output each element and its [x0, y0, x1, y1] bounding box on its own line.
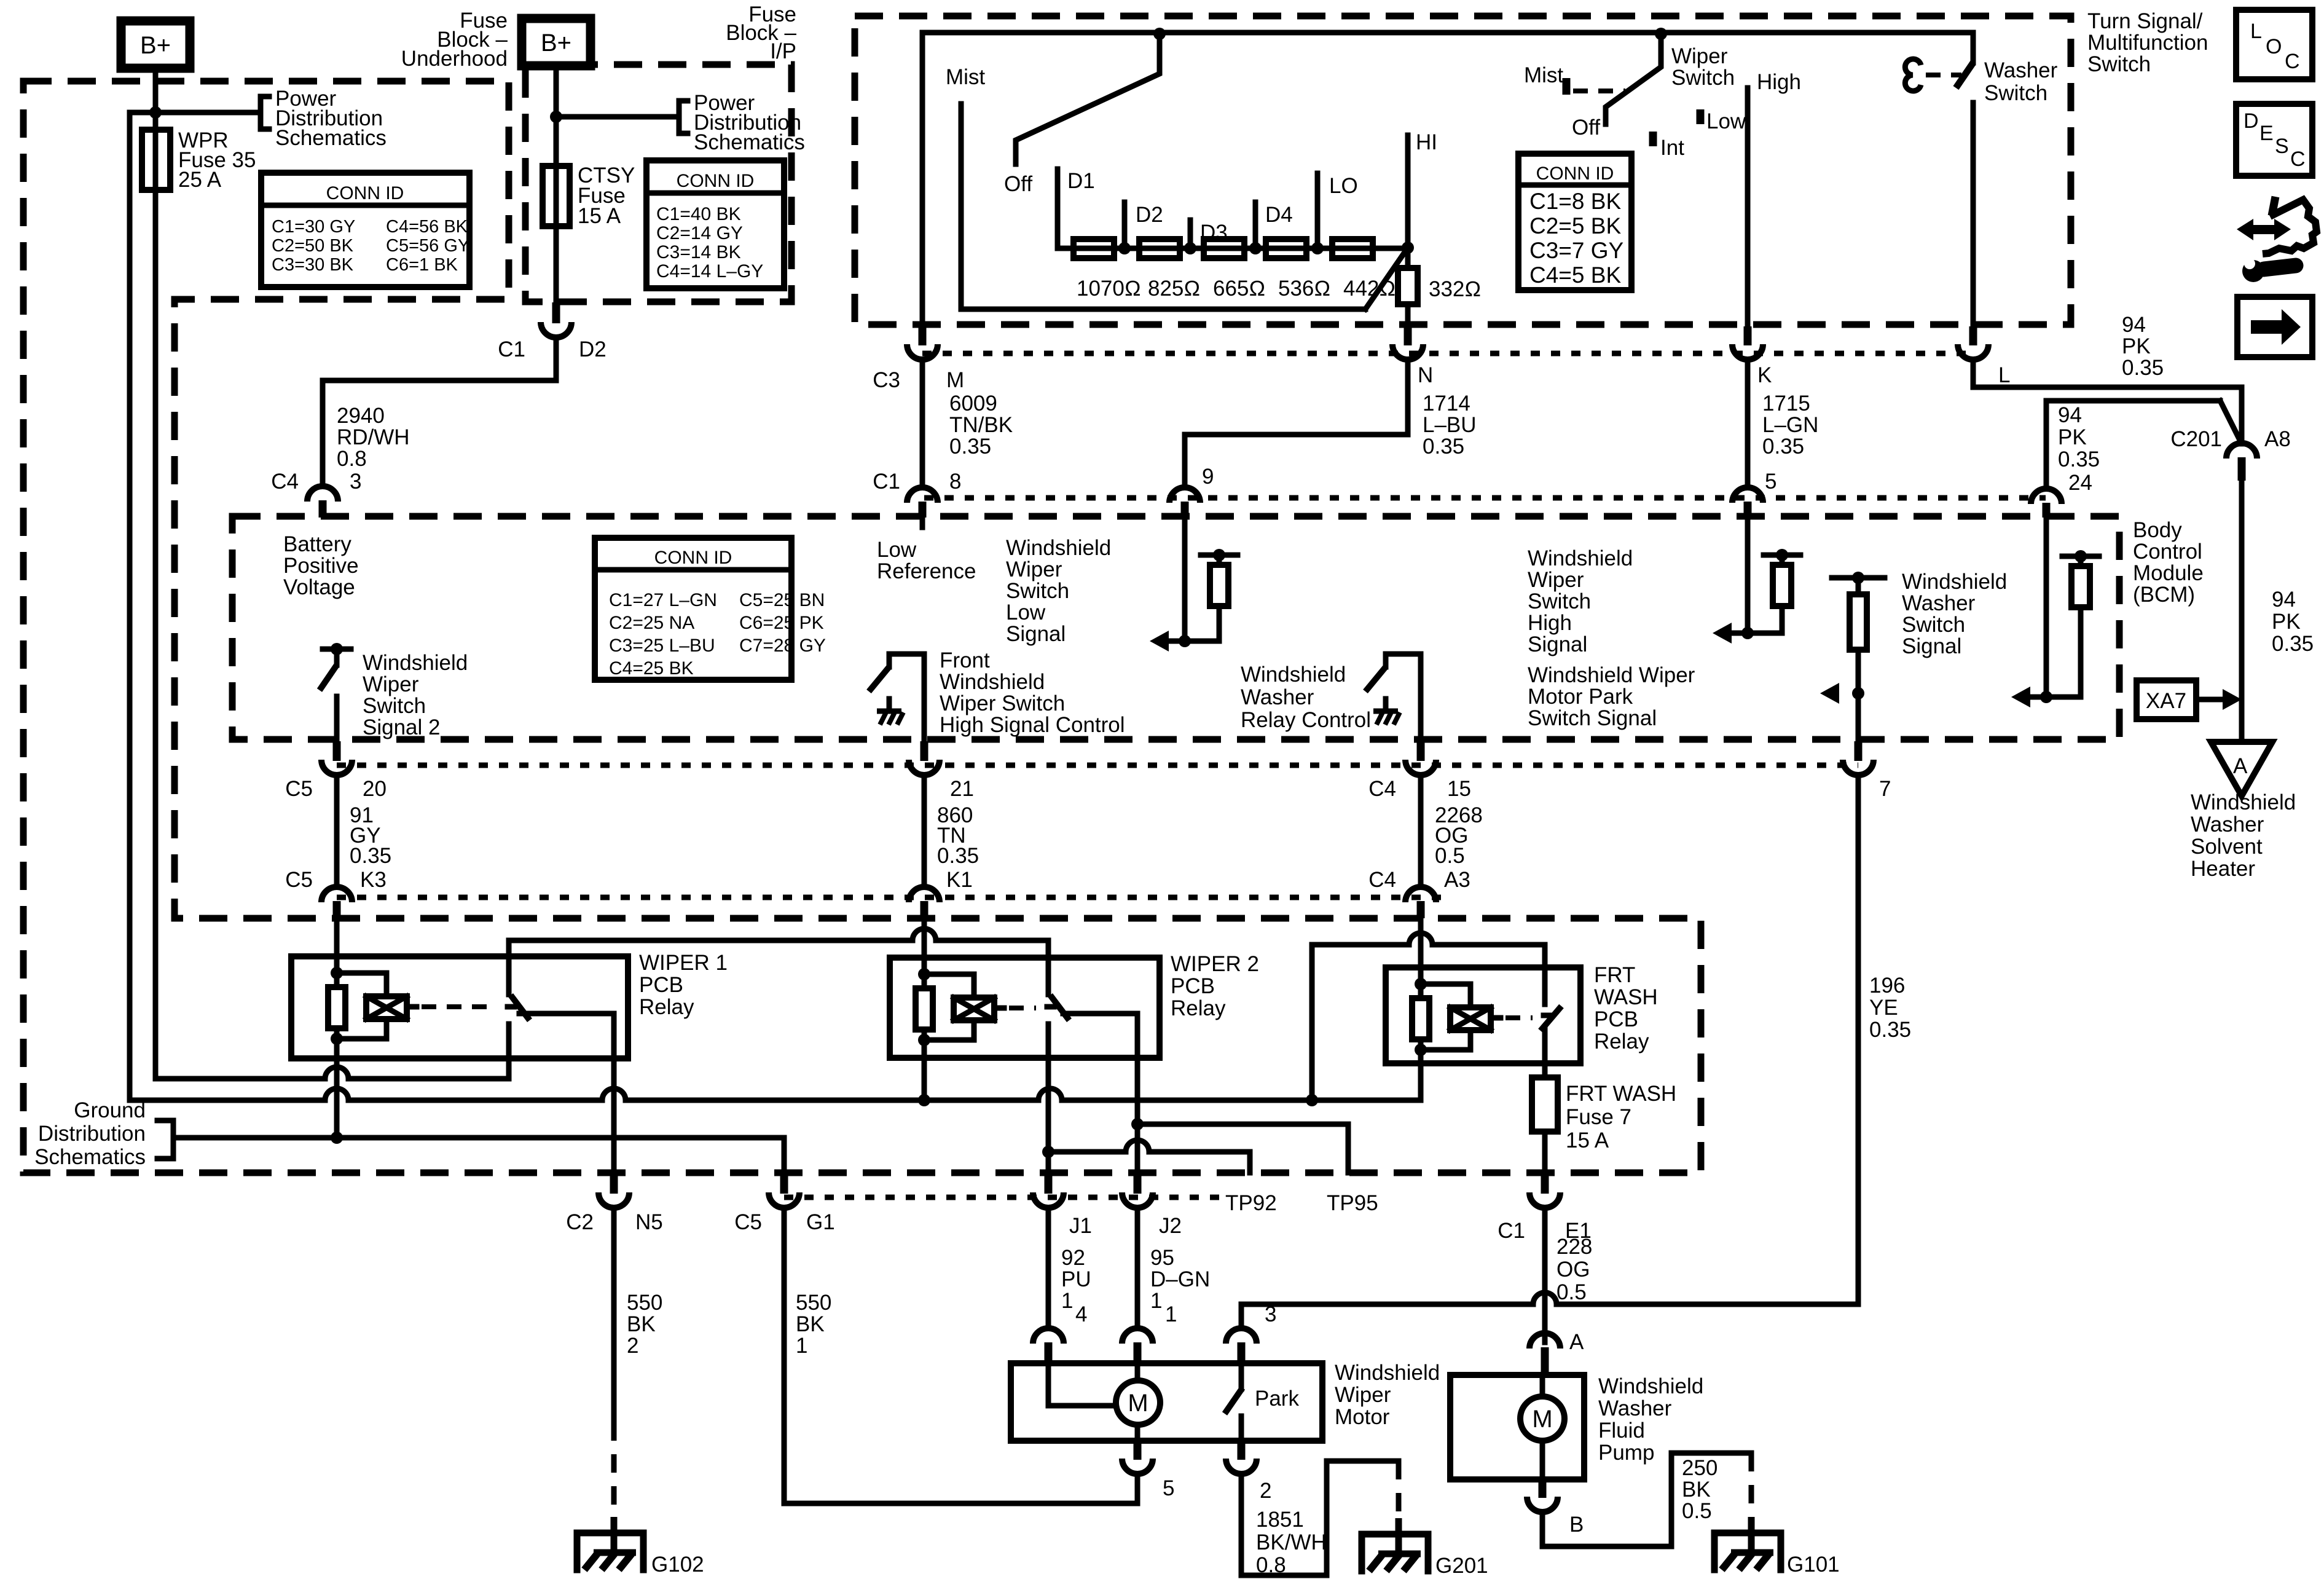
- wire 250 BK: [1542, 1453, 1751, 1546]
- svg-text:15: 15: [1447, 777, 1471, 801]
- svg-text:1: 1: [1061, 1289, 1073, 1313]
- svg-text:Windshield: Windshield: [363, 651, 468, 675]
- svg-text:E: E: [2259, 122, 2274, 145]
- connector pin 5: [1732, 487, 1763, 518]
- label 94 PK 0.35 right: [2272, 588, 2314, 656]
- svg-text:YE: YE: [1869, 996, 1898, 1020]
- connector row C L: [1958, 326, 1988, 360]
- svg-text:G101: G101: [1787, 1553, 1840, 1577]
- svg-text:3: 3: [1265, 1302, 1276, 1326]
- svg-text:0.35: 0.35: [949, 435, 991, 459]
- svg-text:Body: Body: [2133, 518, 2182, 542]
- ground G101: [1714, 1517, 1840, 1577]
- svg-text:WIPER 1: WIPER 1: [639, 951, 728, 975]
- svg-text:536Ω: 536Ω: [1278, 277, 1330, 301]
- label windshield wiper switch signal 2: [363, 651, 468, 739]
- svg-text:Washer: Washer: [1902, 591, 1976, 615]
- label J2: [1159, 1214, 1182, 1238]
- svg-text:196: 196: [1869, 974, 1905, 998]
- bcm output symbol pin 20 (signal 2 switch): [320, 643, 351, 741]
- svg-text:Wiper: Wiper: [1671, 44, 1728, 68]
- svg-text:20: 20: [363, 777, 387, 801]
- svg-text:C4=5 BK: C4=5 BK: [1529, 262, 1621, 288]
- wire relay2 arm output: [1063, 1014, 1137, 1173]
- connector K1: [909, 887, 940, 918]
- label 1851 BK/WH 0.8: [1256, 1508, 1327, 1577]
- svg-text:K1: K1: [946, 868, 973, 892]
- turn signal multifunction switch dashed box: [855, 16, 2071, 325]
- svg-text:PCB: PCB: [1594, 1007, 1638, 1031]
- windshield wiper motor box: [1011, 1363, 1322, 1441]
- wire main bus y53: [922, 30, 1973, 36]
- svg-text:9: 9: [1202, 465, 1214, 489]
- bcm input symbol pin 9 (wiper switch low signal): [1150, 549, 1238, 652]
- tap D3: [1184, 220, 1228, 254]
- relay WIPER 1: [291, 956, 628, 1058]
- svg-text:Relay: Relay: [639, 995, 694, 1019]
- wire 92 PU J1 to motor: [1046, 1212, 1051, 1326]
- bcm input symbol pin 5 (wiper switch high signal): [1713, 549, 1800, 644]
- svg-text:G1: G1: [806, 1210, 835, 1234]
- battery feed B+ 2 symbol: [522, 18, 591, 66]
- wire G101 dashed drop: [1749, 1453, 1754, 1530]
- svg-text:C3: C3: [873, 368, 900, 392]
- svg-text:Battery: Battery: [283, 532, 351, 556]
- svg-text:C1=30 GY: C1=30 GY: [272, 217, 355, 237]
- svg-text:CONN ID: CONN ID: [677, 171, 755, 191]
- wiper switch arm 1: [1016, 34, 1160, 164]
- label 1715 L-GN 0.35: [1762, 392, 1818, 459]
- junction rail relay3 feed: [1306, 1094, 1318, 1106]
- label TP92: [1225, 1191, 1277, 1215]
- wire relay3 coil bottom: [1418, 1063, 1424, 1100]
- wire TP92: [1048, 1140, 1250, 1173]
- svg-text:C201: C201: [2170, 427, 2222, 451]
- svg-text:I/P: I/P: [770, 39, 796, 63]
- resistor 536: [1266, 239, 1306, 258]
- svg-text:High: High: [1757, 70, 1801, 94]
- label windshield washer relay control: [1241, 663, 1371, 732]
- icon DESC box: [2236, 104, 2312, 176]
- label 24: [2068, 471, 2092, 495]
- label fuse block underhood: [401, 9, 508, 71]
- svg-text:D–GN: D–GN: [1150, 1267, 1210, 1291]
- svg-text:Relay: Relay: [1594, 1030, 1649, 1053]
- washer switch spring: [1905, 59, 1921, 91]
- junction bus arm2: [1655, 28, 1667, 40]
- wire motor pin5 internal: [1135, 1425, 1140, 1441]
- svg-text:PCB: PCB: [1171, 974, 1215, 998]
- connector A3: [1405, 887, 1436, 918]
- contact stub Int: [1653, 132, 1684, 160]
- svg-text:Fuse 7: Fuse 7: [1566, 1105, 1631, 1129]
- wire relay3 lower contact to fuse: [1542, 1029, 1548, 1077]
- svg-text:Signal: Signal: [1902, 634, 1961, 658]
- svg-text:CONN ID: CONN ID: [326, 183, 404, 203]
- wire 6009 M to pin8: [920, 364, 925, 484]
- label 2268 OG 0.5: [1435, 803, 1483, 868]
- svg-text:Mist: Mist: [1524, 63, 1563, 87]
- ground distribution bracket: [157, 1120, 784, 1159]
- wire relay1 coil to ground: [334, 1058, 340, 1138]
- label wiper switch: [1671, 44, 1735, 90]
- svg-text:Schematics: Schematics: [275, 126, 387, 150]
- svg-text:K3: K3: [360, 868, 387, 892]
- svg-text:PK: PK: [2058, 425, 2087, 449]
- icon LOC box: [2236, 10, 2312, 79]
- wire B+1 down: [153, 68, 159, 130]
- connector pin 24: [2031, 489, 2062, 518]
- mist 2 contact stub: [1563, 78, 1571, 95]
- svg-text:0.5: 0.5: [1435, 844, 1465, 868]
- svg-text:Wiper: Wiper: [1335, 1383, 1391, 1407]
- tap LO: [1311, 173, 1358, 254]
- wire B+1 branch left: [130, 112, 155, 1100]
- svg-text:N5: N5: [635, 1210, 663, 1234]
- svg-text:Washer: Washer: [1241, 685, 1314, 709]
- svg-text:C2=14 GY: C2=14 GY: [656, 223, 743, 243]
- svg-text:Reference: Reference: [877, 559, 976, 583]
- connector motor pin 2: [1226, 1441, 1271, 1503]
- svg-text:Heater: Heater: [2191, 857, 2255, 881]
- svg-text:C2=50 BK: C2=50 BK: [272, 236, 354, 256]
- relay WIPER 2: [890, 958, 1160, 1058]
- svg-text:K: K: [1757, 363, 1772, 387]
- wire High contact: [1745, 88, 1751, 326]
- connector band dotted row D: [924, 495, 2046, 501]
- wire TP95: [1137, 1124, 1348, 1173]
- tap D4: [1249, 202, 1293, 254]
- svg-text:1070Ω: 1070Ω: [1077, 277, 1141, 301]
- fuse WPR 35 25A: [142, 130, 170, 190]
- contact stub Low: [1700, 109, 1746, 133]
- svg-text:228: 228: [1557, 1235, 1592, 1259]
- wire 94 PK L to C201: [1973, 364, 2242, 444]
- connector row C M: [907, 326, 938, 360]
- svg-text:Multifunction: Multifunction: [2087, 31, 2208, 55]
- wire 550 BK 2: [611, 1212, 617, 1422]
- svg-text:Motor: Motor: [1335, 1405, 1390, 1429]
- resistor 332: [1398, 248, 1481, 326]
- label TP95: [1327, 1191, 1378, 1215]
- wire fuse to E1: [1542, 1132, 1548, 1173]
- washer switch lower contact: [1971, 103, 1976, 326]
- svg-text:21: 21: [950, 777, 974, 801]
- svg-text:Positive: Positive: [283, 554, 359, 578]
- wire B+2 to power distribution bracket: [556, 114, 679, 120]
- svg-text:M: M: [1128, 1390, 1148, 1417]
- label body control module: [2133, 518, 2204, 607]
- svg-text:825Ω: 825Ω: [1148, 277, 1200, 301]
- svg-text:XA7: XA7: [2146, 689, 2186, 713]
- battery feed B+ 1 symbol: [121, 21, 190, 68]
- label Off 1: [1004, 172, 1032, 196]
- svg-text:550: 550: [796, 1291, 831, 1315]
- svg-text:LO: LO: [1329, 174, 1358, 198]
- label C5 G1: [734, 1210, 834, 1234]
- label fuse block I/P: [726, 2, 796, 63]
- svg-text:7: 7: [1879, 777, 1891, 801]
- label C3 M: [873, 368, 964, 392]
- svg-text:94: 94: [2058, 403, 2082, 427]
- wire B+2 down: [554, 66, 559, 166]
- label 228 OG 0.5: [1557, 1235, 1592, 1304]
- label Park: [1255, 1387, 1299, 1411]
- svg-text:Fluid: Fluid: [1598, 1419, 1645, 1443]
- svg-text:Relay Control: Relay Control: [1241, 708, 1371, 732]
- svg-text:Distribution: Distribution: [38, 1122, 146, 1146]
- svg-text:C1=40 BK: C1=40 BK: [656, 204, 741, 224]
- fuse CTSY 15A: [543, 166, 570, 226]
- svg-text:Wiper: Wiper: [1528, 568, 1584, 592]
- label N: [1418, 363, 1433, 387]
- connector band dotted row C: [922, 351, 1973, 356]
- fuse FRT WASH 7 15A: [1532, 1077, 1558, 1132]
- wire WPR fuse down to relay feed: [153, 190, 159, 1079]
- wire B+ rail y1790: [130, 1089, 1420, 1100]
- label Off 2: [1572, 116, 1600, 140]
- svg-text:C1=8 BK: C1=8 BK: [1529, 189, 1621, 214]
- relay WIPER 1 switch: [508, 956, 530, 1020]
- wire 94 PK to pin24 corner: [2046, 401, 2220, 486]
- svg-text:Signal: Signal: [1528, 632, 1587, 656]
- svg-text:0.35: 0.35: [1869, 1018, 1911, 1042]
- connector bottom row E1: [1529, 1173, 1560, 1208]
- label High: [1757, 70, 1801, 94]
- svg-text:Mist: Mist: [946, 65, 985, 89]
- svg-text:Windshield: Windshield: [1598, 1374, 1703, 1398]
- wire 2268 OG: [1418, 778, 1424, 884]
- label turn signal multifunction switch: [2087, 9, 2208, 76]
- wire mist contact 1: [961, 104, 1365, 309]
- svg-text:0.35: 0.35: [2272, 632, 2314, 656]
- label C4 15: [1368, 777, 1471, 801]
- label CTSY fuse: [578, 163, 635, 228]
- svg-text:332Ω: 332Ω: [1429, 277, 1481, 301]
- junction B+2: [550, 111, 562, 123]
- motor M circle: [1116, 1380, 1160, 1425]
- label ground distribution schematics: [34, 1098, 146, 1169]
- svg-text:24: 24: [2068, 471, 2092, 495]
- wire motor pin5 to 550BK1: [1135, 1477, 1140, 1503]
- svg-text:C7=28 GY: C7=28 GY: [739, 636, 826, 656]
- svg-text:Switch Signal: Switch Signal: [1528, 706, 1657, 730]
- svg-text:CONN ID: CONN ID: [654, 548, 732, 568]
- svg-text:PK: PK: [2122, 334, 2151, 358]
- svg-text:Low: Low: [877, 538, 917, 562]
- wire relay2 top contact: [1046, 940, 1051, 994]
- svg-text:Schematics: Schematics: [34, 1145, 146, 1169]
- svg-text:C4=56 BK: C4=56 BK: [386, 217, 468, 237]
- svg-text:C: C: [2290, 148, 2306, 171]
- svg-text:C4: C4: [1368, 868, 1396, 892]
- svg-text:Windshield: Windshield: [1902, 570, 2007, 594]
- label front windshield wiper switch high signal control: [940, 648, 1125, 737]
- label J1: [1069, 1214, 1092, 1238]
- label FRT WASH fuse: [1566, 1082, 1676, 1152]
- connector band dotted row H: [337, 895, 1445, 900]
- wire K1 to relay2 coil: [922, 918, 927, 960]
- connector bottom row N5: [599, 1173, 629, 1208]
- wire 860 TN: [922, 778, 927, 884]
- wire relay1 arm output: [519, 1014, 614, 1173]
- svg-text:0.5: 0.5: [1557, 1280, 1587, 1304]
- connector bottom row J2: [1122, 1173, 1153, 1208]
- label low reference: [877, 538, 976, 583]
- svg-text:Washer: Washer: [1984, 58, 2058, 82]
- wire 196 YE to motor pin3: [1241, 1293, 1858, 1326]
- svg-text:D1: D1: [1067, 169, 1095, 193]
- svg-text:0.35: 0.35: [937, 844, 979, 868]
- label windshield washer fluid pump: [1598, 1374, 1703, 1465]
- label 21: [950, 777, 974, 801]
- connector motor pin 3: [1226, 1302, 1276, 1363]
- svg-text:Switch: Switch: [1671, 66, 1735, 90]
- ground G102: [577, 1517, 704, 1577]
- svg-text:FRT WASH: FRT WASH: [1566, 1082, 1676, 1106]
- svg-text:1: 1: [1165, 1302, 1177, 1326]
- svg-text:250: 250: [1682, 1456, 1717, 1480]
- svg-text:Control: Control: [2133, 540, 2202, 564]
- svg-text:N: N: [1418, 363, 1433, 387]
- label 196 YE 0.35: [1869, 974, 1911, 1042]
- relay FRT WASH switch: [1541, 967, 1561, 1031]
- svg-text:TP92: TP92: [1225, 1191, 1277, 1215]
- wire 1851 BK/WH park to ground: [1241, 1461, 1399, 1575]
- label windshield washer solvent heater: [2191, 790, 2296, 881]
- label 9: [1202, 465, 1214, 489]
- wire relay1 feed from WPR: [155, 1067, 509, 1079]
- svg-text:Windshield: Windshield: [1006, 536, 1111, 560]
- motor park switch: [1225, 1363, 1242, 1441]
- label C2 N5: [566, 1210, 663, 1234]
- svg-text:High: High: [1528, 611, 1572, 635]
- label C5 K3: [285, 868, 387, 892]
- connector pin 8: [907, 487, 938, 518]
- svg-text:D2: D2: [579, 337, 607, 361]
- washer pump M circle: [1520, 1396, 1564, 1441]
- junction HI: [1402, 242, 1414, 254]
- resistor 665: [1204, 239, 1244, 258]
- svg-text:BK/WH: BK/WH: [1256, 1530, 1327, 1554]
- svg-text:L: L: [1998, 363, 2010, 387]
- connector pin 7: [1843, 741, 1874, 775]
- svg-text:C1: C1: [1498, 1219, 1525, 1243]
- label 94 PK 0.35 top: [2122, 313, 2164, 380]
- svg-text:C4: C4: [1368, 777, 1396, 801]
- label K: [1757, 363, 1772, 387]
- svg-text:0.5: 0.5: [1682, 1499, 1712, 1523]
- svg-text:Washer: Washer: [1598, 1396, 1672, 1420]
- wire 1714 N to pin9: [1185, 364, 1408, 484]
- svg-text:94: 94: [2272, 588, 2296, 612]
- svg-text:15 A: 15 A: [578, 204, 621, 228]
- svg-text:1: 1: [796, 1334, 807, 1358]
- svg-text:0.35: 0.35: [2058, 447, 2100, 471]
- connector C4 3: [307, 486, 338, 518]
- svg-text:(BCM): (BCM): [2133, 583, 2195, 607]
- svg-text:HI: HI: [1416, 130, 1437, 154]
- label windshield wiper switch high signal: [1528, 546, 1633, 656]
- label Mist 1: [946, 65, 985, 89]
- svg-text:L–BU: L–BU: [1423, 413, 1477, 437]
- xa7 box: [2137, 680, 2196, 719]
- svg-text:A: A: [2233, 754, 2248, 778]
- svg-text:Module: Module: [2133, 561, 2204, 585]
- wire relay2 coil bottom: [922, 1058, 927, 1100]
- label 5: [1765, 470, 1776, 494]
- wire CTSY fuse down: [554, 226, 559, 302]
- svg-text:O: O: [2266, 35, 2282, 58]
- svg-text:Park: Park: [1255, 1387, 1299, 1411]
- svg-text:Switch: Switch: [1902, 613, 1965, 637]
- wire relay2 lower contact down: [1046, 1024, 1051, 1173]
- svg-text:Front: Front: [940, 648, 990, 672]
- label 1714 L-BU 0.35: [1423, 392, 1477, 459]
- label windshield wiper motor: [1335, 1361, 1440, 1429]
- conn id table BCM: [595, 538, 826, 680]
- svg-text:8: 8: [949, 470, 961, 494]
- svg-text:5: 5: [1765, 470, 1776, 494]
- wire 94 PK to solvent heater: [2239, 481, 2245, 742]
- wire G201 dashed drop: [1396, 1461, 1402, 1532]
- svg-text:6009: 6009: [949, 392, 997, 415]
- svg-text:PCB: PCB: [639, 973, 683, 997]
- label battery positive voltage: [283, 532, 359, 599]
- svg-text:1851: 1851: [1256, 1508, 1304, 1532]
- svg-text:Turn Signal/: Turn Signal/: [2087, 9, 2203, 33]
- svg-text:442Ω: 442Ω: [1343, 277, 1396, 301]
- tap HI: [1408, 130, 1437, 248]
- connector motor pin 5: [1122, 1441, 1174, 1500]
- connector pin 9: [1169, 487, 1200, 518]
- wire 91 GY: [334, 778, 340, 884]
- svg-text:Off: Off: [1572, 116, 1600, 140]
- connector C1 D2: [541, 302, 571, 337]
- label C4 3: [271, 470, 361, 494]
- connector bottom row J1: [1033, 1173, 1064, 1208]
- label C1 D2: [498, 337, 607, 361]
- svg-text:C2=5 BK: C2=5 BK: [1529, 213, 1621, 238]
- label power distribution schematics 1: [275, 87, 387, 150]
- wire 196 YE down: [1856, 778, 1861, 1304]
- svg-text:1: 1: [1150, 1289, 1162, 1313]
- wire M column top: [920, 33, 925, 326]
- conn id table turn signal: [1518, 154, 1631, 290]
- icon wrench and arrow: [2237, 197, 2317, 282]
- wire 2940 RD/WH: [323, 339, 556, 483]
- connector motor pin 4: [1033, 1302, 1087, 1363]
- svg-text:Wiper: Wiper: [363, 672, 419, 696]
- connector washer pump B: [1527, 1479, 1584, 1537]
- svg-text:Windshield: Windshield: [940, 670, 1045, 694]
- washer switch linkage dashes: [1926, 73, 1961, 77]
- terminator A windshield washer solvent heater: [2211, 742, 2272, 796]
- label Mist 2: [1524, 63, 1563, 87]
- svg-text:D4: D4: [1265, 203, 1293, 227]
- label windshield wiper switch low signal: [1006, 536, 1111, 646]
- svg-text:Low: Low: [1006, 600, 1046, 624]
- label C1 8: [873, 470, 961, 494]
- connector pin 15: [1405, 741, 1436, 775]
- label 250 BK 0.5: [1682, 1456, 1717, 1523]
- svg-text:Windshield Wiper: Windshield Wiper: [1528, 663, 1695, 687]
- svg-text:550: 550: [627, 1291, 662, 1315]
- relay WIPER 1 label: [639, 951, 728, 1019]
- relay FRT WASH label: [1594, 963, 1658, 1053]
- connector pin 20: [321, 741, 352, 775]
- wire pin9 into bcm: [1182, 518, 1188, 641]
